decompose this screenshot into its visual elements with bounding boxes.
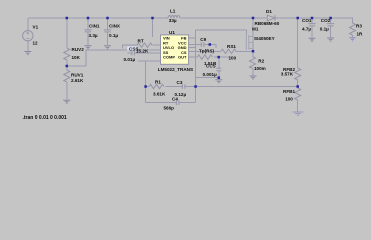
ground CIN1 [85,46,92,49]
ground R2 [250,76,257,79]
wire RUV2 to dot [66,60,68,70]
node RFB mid [296,85,299,88]
ground RUV1 [63,100,70,103]
svg-text:R1: R1 [155,79,161,84]
node FB [194,85,197,88]
inductor L1 [168,16,180,18]
wire RFB2 to dot [297,80,299,88]
svg-text:VIN: VIN [163,36,170,41]
svg-text:RFB1: RFB1 [283,89,295,94]
wire SW node mosfet [252,18,254,51]
wire SS stub [128,52,161,54]
capacitor CINX [104,30,111,32]
wire OUT gate resistor [189,56,232,58]
svg-text:RUV1: RUV1 [71,73,84,78]
ground CO1 [309,38,316,41]
svg-text:RS1: RS1 [227,44,236,49]
resistor RT [137,43,152,47]
svg-text:0.1µ: 0.1µ [320,26,329,31]
svg-text:RT: RT [138,38,144,43]
wire FB to divider [146,86,298,88]
capacitor C3 [182,84,185,89]
nmos M1 [246,34,253,50]
svg-text:L1: L1 [170,9,176,14]
svg-text:VCC: VCC [178,40,187,45]
text labels (drawn at 2x then scaled 0.5) [23,9,364,122]
svg-text:C4: C4 [172,96,178,101]
capacitor CO2 [327,24,334,26]
wire gate top feed [196,30,247,34]
ground symbols [24,38,334,103]
wire agnd CCS [196,77,219,79]
svg-text:OUT: OUT [178,55,187,60]
svg-text:UVLO: UVLO [163,45,174,50]
svg-text:R2: R2 [258,58,264,63]
svg-text:0.1µ: 0.1µ [109,33,118,38]
svg-text:33µ: 33µ [169,18,177,23]
diode D1 [267,15,275,21]
wire RFB1 bottom [297,100,299,112]
resistor RUV1 [64,70,70,82]
ground RFB1 [293,112,304,115]
node rail VIN [151,17,154,20]
svg-text:10K: 10K [72,55,81,60]
svg-text:CCS: CCS [206,63,216,68]
label CSS highlight [127,46,137,51]
wire CIN1 [87,18,89,45]
svg-text:0.01µ: 0.01µ [124,57,136,62]
wire CO1 [311,18,313,38]
node CS sense [252,50,255,53]
svg-text:FB: FB [181,36,186,41]
wire CS filter [189,50,253,52]
wire CCS vertical [218,57,220,78]
svg-text:LM5022_TRANS: LM5022_TRANS [158,67,193,72]
resistor RFB2 [295,68,301,80]
resistor R3 [350,23,356,35]
wire FB riser [189,30,196,103]
capacitor CO1 [308,24,315,26]
capacitor CIN1 [84,30,91,32]
wire top rail [28,17,168,19]
svg-text:SI4050EY: SI4050EY [254,36,275,41]
ground R3 [349,38,355,41]
svg-text:RFB2: RFB2 [283,67,295,72]
svg-text:CO2: CO2 [321,18,331,23]
wire RUV1 bottom [66,82,68,100]
resistor R1 [149,84,164,88]
svg-text:CS: CS [181,50,187,55]
svg-text:SS: SS [163,50,169,55]
svg-text:.tran 0 0.01 0 0.001: .tran 0 0.01 0 0.001 [23,115,67,121]
capacitor C9 [201,42,204,47]
svg-text:R3: R3 [356,23,362,28]
svg-text:C9: C9 [200,37,206,42]
wire COMP net [138,61,161,102]
svg-text:CINX: CINX [109,23,121,28]
node UVLO divider [66,65,69,68]
svg-text:100: 100 [285,96,293,101]
IC pin labels [163,36,187,60]
node rail VOUT1 [296,17,299,20]
node rail CO1 [311,17,314,20]
node rail CIN1 [87,17,90,20]
capacitor C4 [176,100,179,105]
resistor R2 [250,57,256,69]
svg-text:CIN1: CIN1 [89,23,100,28]
svg-text:RUV2: RUV2 [72,47,85,52]
svg-text:CO1: CO1 [302,18,312,23]
node rail SW [252,17,255,20]
wire RT lead [123,45,161,48]
svg-text:Tp(RS): Tp(RS) [199,49,215,54]
wire R2 bottom [252,69,254,76]
ground CINX [104,46,111,49]
wire CO2 [330,18,332,38]
wire CINX [107,18,109,45]
wire V1 top stub [27,18,29,31]
wire R3 bottom [352,35,354,37]
svg-text:4.7µ: 4.7µ [302,26,311,31]
svg-text:2.61K: 2.61K [71,78,84,83]
wire UVLO net [67,50,161,66]
svg-text:V1: V1 [33,25,39,30]
svg-text:C3: C3 [177,80,183,85]
svg-text:D1: D1 [266,9,272,14]
wire comp bottom C4 [146,102,196,104]
svg-text:U1: U1 [169,30,175,35]
svg-text:0.001µ: 0.001µ [203,72,217,77]
wire VCC cap [189,45,216,48]
resistor RFB1 [295,88,301,100]
svg-text:3.3µ: 3.3µ [89,33,98,38]
ground CCS [215,80,222,83]
wire RUV2 top [66,18,68,48]
svg-text:GND: GND [178,45,187,50]
svg-text:3.61K: 3.61K [153,91,166,96]
svg-text:12: 12 [33,41,39,46]
IC U1 LM5022 box [161,35,189,64]
resistor RS1 [221,49,236,53]
node gate R [217,56,220,59]
svg-text:100m: 100m [254,66,266,71]
wire GND stub [189,47,196,49]
node CCS gnd [218,76,221,79]
node rail RUV2 [66,17,69,20]
resistor RUV2 [64,48,70,60]
svg-text:3.57K: 3.57K [281,72,294,77]
svg-text:100: 100 [229,55,237,60]
node comp [144,85,147,88]
svg-text:CSS: CSS [129,46,138,51]
junction dots [66,17,332,88]
svg-text:1R: 1R [357,31,364,36]
ground V1 [24,52,31,55]
svg-text:RT: RT [163,40,169,45]
wire VIN pin riser [152,18,154,37]
wire V1 bottom stub [27,41,29,51]
node VCC cap [209,43,212,46]
svg-text:COMP: COMP [163,55,175,60]
capacitor CSS [132,51,135,56]
wire RFB riser [297,18,299,68]
resistor gate R [197,55,212,59]
svg-text:M1: M1 [252,27,259,32]
capacitor CCS [216,68,221,71]
ground CO2 [327,38,334,41]
svg-text:566p: 566p [164,106,175,111]
svg-text:RB068M-60: RB068M-60 [255,21,280,26]
voltage source V1 [23,31,33,41]
node rail CINX [106,17,109,20]
wire mosfet source to R2 [252,51,254,56]
node rail CO2 [329,17,332,20]
